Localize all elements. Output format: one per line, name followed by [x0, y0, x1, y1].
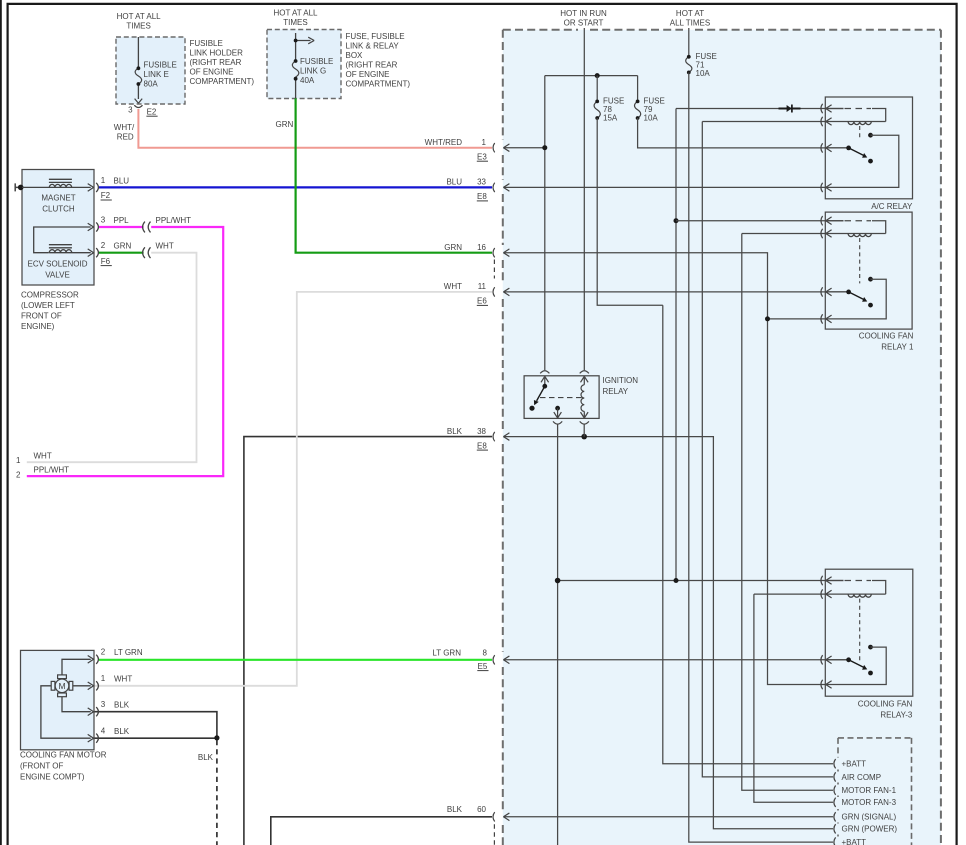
svg-text:GRN: GRN — [444, 243, 462, 252]
svg-text:1: 1 — [16, 456, 21, 465]
relay U3 cooling fan relay 3 pin 1 inner wire — [826, 580, 844, 582]
svg-text:2: 2 — [16, 470, 21, 479]
relay U1 A/C pin 1 inner wire — [826, 108, 844, 110]
svg-text:1: 1 — [101, 176, 106, 185]
relay U1 A/C fixed contact — [868, 133, 873, 138]
connector arc E3 row — [493, 143, 495, 152]
fuse box dashed border top — [503, 29, 941, 31]
svg-text:ENGINE): ENGINE) — [21, 322, 55, 331]
svg-text:AIR COMP: AIR COMP — [842, 773, 882, 782]
connector arc BLK38 row — [493, 432, 495, 441]
arrow BLU row — [503, 184, 509, 192]
svg-text:E2: E2 — [147, 107, 157, 116]
fuse box (dashed area fill) — [503, 30, 941, 845]
svg-text:+BATT: +BATT — [842, 760, 867, 769]
magnet clutch coil core — [49, 179, 72, 182]
junction relay 3 feed right — [674, 578, 679, 583]
relay U1 A/C pin 2 arrow — [826, 118, 832, 126]
ignition relay output contact — [555, 406, 560, 411]
svg-text:GRN (POWER): GRN (POWER) — [842, 825, 898, 834]
svg-text:TIMES: TIMES — [126, 22, 150, 31]
relay U3 cooling fan relay 3 pin 3 arrow — [826, 656, 832, 664]
svg-text:FUSIBLE: FUSIBLE — [300, 57, 333, 66]
fusible link G wire — [295, 33, 297, 98]
svg-text:ECV SOLENOID: ECV SOLENOID — [27, 260, 87, 269]
svg-text:10A: 10A — [644, 114, 659, 123]
junction relay 3 feed left — [555, 578, 561, 584]
relay U1 A/C pin 1 arrow — [826, 105, 832, 113]
wire relay 3 coil to MOTOR FAN-3 pin — [754, 594, 833, 802]
svg-text:3: 3 — [128, 106, 133, 115]
fuse box dashed border right — [940, 30, 942, 845]
fusible link E bottom arrow — [135, 99, 143, 104]
svg-text:COOLING FAN MOTOR: COOLING FAN MOTOR — [20, 751, 107, 760]
connector E2 arc — [134, 105, 142, 107]
connector arc WHT row — [493, 287, 495, 296]
fuse 71 — [688, 28, 690, 55]
svg-text:RELAY-3: RELAY-3 — [880, 710, 913, 719]
svg-text:PPL/WHT: PPL/WHT — [34, 466, 70, 475]
page edge bar — [0, 0, 2, 845]
svg-text:A/C RELAY: A/C RELAY — [871, 202, 913, 211]
svg-text:F6: F6 — [101, 257, 111, 266]
compressor pin 3 arrow — [88, 223, 94, 231]
relay U3 cooling fan relay 3 actuator dashed link — [859, 599, 861, 662]
connector pin +BATT arc — [834, 759, 836, 768]
relay U1 A/C actuator dashed link — [859, 126, 861, 139]
svg-text:BLK: BLK — [447, 427, 463, 436]
fuse fusible link relay box (dashed) — [267, 30, 341, 99]
svg-text:BLK: BLK — [198, 753, 214, 762]
svg-text:BOX: BOX — [346, 51, 364, 60]
wire GRN (compressor pin 2) — [99, 252, 144, 254]
ignition relay switch — [542, 384, 547, 389]
svg-text:80A: 80A — [144, 80, 159, 89]
connector arrows at fuse box edge — [503, 144, 509, 821]
wire ignition switch feed vertical — [544, 76, 546, 371]
wire BLK (connector 60) — [271, 817, 492, 845]
wire WHT/RED (salmon) — [138, 109, 492, 148]
fusible link G branch arrow — [296, 37, 315, 44]
junction relay 1 pin 4 — [765, 316, 770, 321]
svg-text:RELAY: RELAY — [603, 387, 629, 396]
svg-text:ENGINE COMPT): ENGINE COMPT) — [20, 773, 85, 782]
relay U2 cooling fan relay 1 switch common wire — [826, 291, 849, 293]
wire WHT inside to relay 1 pin 3 — [503, 291, 848, 293]
ignition relay top pin arcs — [540, 371, 589, 374]
wire A/C relay pin 1 feed — [676, 108, 844, 110]
wire GRN main vertical/horizontal — [296, 98, 492, 252]
svg-text:WHT: WHT — [34, 452, 52, 461]
svg-text:E6: E6 — [477, 297, 487, 306]
svg-text:OF ENGINE: OF ENGINE — [190, 68, 234, 77]
connector arc LTGRN row — [493, 655, 495, 664]
relay U3 cooling fan relay 3 pin 4 arrow — [826, 681, 832, 689]
junction ignition coil ground — [581, 434, 587, 440]
svg-text:RED: RED — [117, 133, 134, 142]
fuse 79 — [637, 76, 639, 100]
svg-text:HOT IN RUN: HOT IN RUN — [560, 9, 607, 18]
svg-text:BLK: BLK — [447, 805, 463, 814]
svg-text:WHT: WHT — [156, 242, 174, 251]
ignition relay coil pin arrow — [581, 376, 589, 384]
svg-text:TIMES: TIMES — [283, 18, 307, 27]
svg-text:2: 2 — [101, 648, 106, 657]
wire ignition relay output vertical — [557, 425, 559, 845]
wire LT GRN — [99, 659, 492, 661]
svg-text:LT GRN: LT GRN — [432, 649, 461, 658]
svg-text:RELAY 1: RELAY 1 — [881, 343, 914, 352]
ignition relay coil — [581, 385, 584, 412]
relay U3 cooling fan relay 3 switch common wire — [826, 659, 849, 661]
wire BLU — [99, 186, 492, 188]
motor internal wires — [41, 659, 91, 738]
arrow BLK38 row — [503, 433, 509, 441]
connector arcs at fuse box edge — [493, 143, 495, 822]
wire to +BATT pin — [663, 305, 833, 764]
svg-text:(LOWER LEFT: (LOWER LEFT — [21, 301, 75, 310]
relay U1 A/C pin 4 arc — [821, 183, 823, 192]
relay U2 cooling fan relay 1 coil — [826, 233, 886, 235]
ignition relay output pin arrow — [554, 408, 562, 418]
magnet clutch coil — [22, 186, 91, 188]
svg-text:LINK G: LINK G — [300, 67, 326, 76]
wire A/C relay pin 2 — [702, 121, 826, 123]
svg-text:15A: 15A — [603, 114, 618, 123]
relay U1 A/C pin 2 arc — [821, 117, 823, 126]
relay U3 cooling fan relay 3 pin 4 arc — [821, 680, 823, 689]
junction WHT/RED — [542, 145, 547, 150]
relay U1 A/C pin 3 arrow — [826, 144, 832, 152]
connector pin MOTOR FAN-3 arc — [834, 798, 836, 807]
connector arc BLU row — [493, 183, 495, 192]
bottom connector box (dashed) — [838, 738, 912, 845]
compressor lead-in bar and dot — [15, 183, 22, 191]
svg-text:CLUTCH: CLUTCH — [42, 205, 75, 214]
relay U2 cooling fan relay 1 pin 1 arc — [821, 216, 823, 225]
relay U2 cooling fan relay 1 pin 3 arc — [821, 287, 823, 296]
wire BLK (connector 38) — [244, 437, 492, 845]
compressor box — [22, 170, 94, 286]
relay U3 cooling fan relay 3 fixed contact — [868, 645, 873, 650]
wire fuse 79 output to A/C relay pin 3 — [638, 118, 849, 148]
wire BLK inside — [503, 437, 833, 829]
relay U3 cooling fan relay 3 coil — [826, 593, 886, 595]
svg-text:GRN: GRN — [114, 242, 132, 251]
svg-text:1: 1 — [482, 138, 487, 147]
motor pin 4 arrow/arc — [88, 734, 94, 742]
svg-text:+BATT: +BATT — [842, 838, 867, 845]
svg-text:WHT/RED: WHT/RED — [425, 138, 463, 147]
wire A/C coil branch vertical — [675, 109, 677, 581]
svg-text:38: 38 — [477, 427, 486, 436]
inline connector PPL/WHT — [143, 222, 151, 233]
wire relay 1 coil to MOTOR FAN-1 pin — [742, 234, 833, 791]
relay U1 A/C switch common wire — [826, 147, 849, 149]
relay U1 A/C contact to pin 4 wire — [826, 135, 899, 187]
svg-text:BLU: BLU — [114, 176, 130, 185]
relay U2 cooling fan relay 1 pin 2 arrow — [826, 230, 832, 238]
wire relay 1 pin 4 branch — [768, 318, 827, 320]
svg-text:E5: E5 — [478, 662, 488, 671]
wire BLK dashed to ground — [216, 740, 218, 845]
relay U3 cooling fan relay 3 box — [825, 569, 913, 696]
svg-text:(RIGHT REAR: (RIGHT REAR — [190, 58, 242, 67]
relay U3 cooling fan relay 3 contact to pin 4 wire — [826, 647, 887, 684]
svg-text:OR START: OR START — [564, 19, 604, 28]
wire BLK 60 inside to GRN SIGNAL pin — [503, 816, 833, 818]
motor pin 2 arrow/arc — [88, 656, 94, 664]
wire BLK (motor pin 3) — [94, 712, 217, 738]
svg-text:16: 16 — [477, 243, 486, 252]
svg-text:11: 11 — [478, 282, 487, 291]
wire LT GRN inside to relay 3 pin 3 — [503, 659, 849, 661]
junction motor BLK — [214, 735, 219, 740]
svg-text:3: 3 — [101, 700, 106, 709]
svg-text:GRN: GRN — [276, 120, 294, 129]
compressor pin 1 arrow — [88, 184, 94, 192]
svg-text:WHT/: WHT/ — [114, 123, 135, 132]
svg-text:E8: E8 — [477, 441, 487, 450]
junction cooling fan relay 1 pin 1 — [674, 218, 679, 223]
svg-text:BLK: BLK — [114, 727, 130, 736]
svg-text:COOLING FAN: COOLING FAN — [858, 699, 913, 708]
ECV coil core — [49, 245, 72, 248]
svg-text:IGNITION: IGNITION — [603, 376, 639, 385]
relay U1 A/C pin 4 arrow — [826, 184, 832, 192]
wire fuse 78 output — [597, 118, 663, 305]
svg-text:2: 2 — [101, 241, 106, 250]
inline connector WHT — [143, 247, 151, 258]
relay U3 cooling fan relay 3 pin 3 arc — [821, 655, 823, 664]
relay U3 cooling fan relay 3 pin 2 arrow — [826, 590, 832, 598]
bottom connector box left edge dashes — [837, 738, 839, 837]
relay U2 cooling fan relay 1 pin 4 arc — [821, 314, 823, 323]
svg-text:HOT AT: HOT AT — [676, 9, 704, 18]
svg-text:WHT: WHT — [444, 282, 462, 291]
svg-text:(RIGHT REAR: (RIGHT REAR — [346, 61, 398, 70]
wire relay 3 pin 1 feed — [558, 580, 844, 582]
svg-text:M: M — [58, 681, 65, 691]
connector arc GRN row — [493, 248, 495, 257]
arrow BLK60 row — [503, 813, 509, 821]
wire WHT/RED inside — [503, 147, 544, 149]
wire relay 3 pin 2 feed — [754, 593, 826, 595]
fusible link G element — [292, 61, 299, 77]
arrow GRN row — [503, 249, 509, 257]
svg-text:PPL/WHT: PPL/WHT — [156, 216, 192, 225]
svg-text:COMPRESSOR: COMPRESSOR — [21, 291, 79, 300]
wire PPL — [99, 226, 144, 228]
motor M symbol — [51, 675, 73, 697]
svg-text:40A: 40A — [300, 76, 315, 85]
wire BLU inside to A/C pin 4 — [503, 186, 826, 188]
motor pin 3 arrow/arc — [88, 708, 94, 716]
svg-text:60: 60 — [477, 805, 486, 814]
svg-text:MOTOR FAN-1: MOTOR FAN-1 — [842, 786, 897, 795]
connector pin GRN (POWER) arc — [834, 824, 836, 833]
relay U2 cooling fan relay 1 pin 3 arrow — [826, 288, 832, 296]
compressor pin 3 arc — [96, 222, 98, 231]
ignition relay bottom pin arcs — [553, 421, 589, 424]
fuse 78 — [596, 76, 598, 100]
relay U1 A/C box — [825, 97, 912, 199]
relay U2 cooling fan relay 1 pin 4 arrow — [826, 315, 832, 323]
svg-text:VALVE: VALVE — [45, 271, 70, 280]
junction top bus fuse 78 — [595, 73, 600, 78]
svg-text:BLU: BLU — [446, 178, 462, 187]
ignition relay coil bottom arrow — [581, 411, 589, 418]
svg-text:FRONT OF: FRONT OF — [21, 312, 62, 321]
connector pin +BATT arc — [834, 837, 836, 845]
wire hot-in-run vertical — [583, 28, 585, 370]
svg-text:PPL: PPL — [114, 216, 130, 225]
ECV solenoid coil — [49, 252, 91, 254]
svg-text:E8: E8 — [477, 192, 487, 201]
wire top bus — [545, 75, 638, 77]
relay U1 A/C coil — [826, 121, 886, 123]
svg-text:WHT: WHT — [114, 675, 132, 684]
relay U1 A/C pin 3 arc — [821, 143, 823, 152]
svg-text:COMPARTMENT): COMPARTMENT) — [190, 77, 255, 86]
compressor pin 2 arrow — [88, 249, 94, 257]
svg-text:LT GRN: LT GRN — [114, 648, 143, 657]
svg-text:10A: 10A — [696, 69, 711, 78]
wire WHT (compressor) — [27, 253, 197, 463]
connector arc BLK60 row — [493, 812, 495, 821]
arrow LTGRN row — [503, 656, 509, 664]
svg-text:MAGNET: MAGNET — [41, 194, 75, 203]
wire WHT (cooling fan motor pin 1) — [94, 292, 492, 686]
relay U2 cooling fan relay 1 pin 1 arrow — [826, 217, 832, 225]
svg-text:COMPARTMENT): COMPARTMENT) — [346, 80, 411, 89]
ECV inner loop wire — [34, 227, 91, 253]
relay U2 cooling fan relay 1 actuator dashed link — [859, 238, 861, 283]
connector link dashes below 60 — [493, 824, 495, 845]
wire cooling fan relay 1 pin 1 feed — [676, 220, 844, 222]
svg-text:4: 4 — [101, 727, 106, 736]
svg-text:F2: F2 — [101, 191, 111, 200]
diode — [779, 108, 801, 110]
wire PPL/WHT — [27, 227, 223, 476]
relay U2 cooling fan relay 1 pin 2 arc — [821, 229, 823, 238]
svg-text:33: 33 — [477, 178, 486, 187]
arrow E3 row — [503, 144, 509, 152]
ignition relay box — [524, 376, 599, 419]
relay U2 cooling fan relay 1 box — [825, 212, 912, 329]
wire A/C pin 2 to AIR COMP pin — [702, 122, 833, 777]
relay U2 cooling fan relay 1 fixed contact — [868, 277, 873, 282]
svg-text:3: 3 — [101, 215, 106, 224]
relay U1 A/C pin 1 arc — [821, 104, 823, 113]
svg-text:MOTOR FAN-3: MOTOR FAN-3 — [842, 798, 897, 807]
svg-text:FUSIBLE: FUSIBLE — [144, 61, 177, 70]
ignition relay actuator dashed link — [540, 397, 583, 399]
compressor pin 2 arc — [96, 248, 98, 257]
svg-text:LINK E: LINK E — [144, 70, 169, 79]
connector pin GRN (SIGNAL) arc — [834, 812, 836, 821]
svg-text:(FRONT OF: (FRONT OF — [20, 762, 64, 771]
wire relay 1 pin 2 feed — [742, 233, 826, 235]
svg-text:FUSIBLE: FUSIBLE — [190, 39, 223, 48]
motor pin 1 arrow/arc — [88, 682, 94, 690]
svg-text:FUSE, FUSIBLE: FUSE, FUSIBLE — [346, 32, 405, 41]
svg-text:COOLING FAN: COOLING FAN — [859, 332, 914, 341]
connector pin AIR COMP arc — [834, 772, 836, 781]
relay U1 A/C switch arm — [849, 148, 864, 156]
cooling fan motor box — [21, 650, 95, 749]
svg-text:E3: E3 — [477, 152, 487, 161]
wire GRN inside — [503, 253, 826, 685]
svg-text:LINK & RELAY: LINK & RELAY — [346, 42, 400, 51]
svg-text:HOT AT ALL: HOT AT ALL — [117, 12, 162, 21]
svg-text:ALL TIMES: ALL TIMES — [670, 19, 710, 28]
svg-text:1: 1 — [101, 674, 106, 683]
connector link dashes 16-11 — [493, 260, 495, 279]
relay U3 cooling fan relay 3 pin 1 arrow — [826, 577, 832, 585]
relay U2 cooling fan relay 1 switch arm — [849, 292, 864, 300]
fuse box dashed border left — [502, 30, 504, 845]
wire BLK (motor pin 4) — [94, 737, 217, 739]
ignition relay switch pin arrow — [541, 376, 549, 386]
relay U3 cooling fan relay 3 pin 2 arc — [821, 589, 823, 598]
svg-text:BLK: BLK — [114, 701, 130, 710]
svg-text:LINK HOLDER: LINK HOLDER — [190, 49, 244, 58]
fusible link E element — [135, 68, 142, 84]
connector pin MOTOR FAN-1 arc — [834, 786, 836, 795]
relay U3 cooling fan relay 3 pin 1 arc — [821, 576, 823, 585]
svg-text:HOT AT ALL: HOT AT ALL — [273, 9, 318, 18]
compressor pin 1 arc — [96, 183, 98, 192]
svg-text:OF ENGINE: OF ENGINE — [346, 70, 390, 79]
wire fuse 71 output to +BATT pin — [689, 72, 833, 842]
svg-text:8: 8 — [483, 649, 488, 658]
relay U2 cooling fan relay 1 contact to pin 4 wire — [826, 279, 887, 319]
relay U2 cooling fan relay 1 pin 1 inner wire — [826, 220, 844, 222]
relay U3 cooling fan relay 3 switch arm — [849, 660, 864, 668]
arrow WHT row — [503, 288, 509, 296]
wire ignition coil bottom stub — [583, 425, 585, 437]
fusible link holder box (dashed) — [116, 37, 185, 104]
svg-text:GRN (SIGNAL): GRN (SIGNAL) — [842, 813, 897, 822]
fusible link E wire — [137, 37, 139, 99]
